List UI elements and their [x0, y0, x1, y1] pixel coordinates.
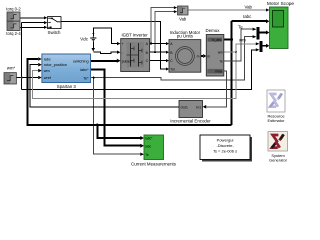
arrow current meas in3 — [140, 153, 144, 156]
arrow spartan in1 iabc — [38, 57, 42, 61]
svg-text:Switch: Switch — [48, 30, 61, 35]
svg-text:switching: switching — [73, 59, 89, 63]
mux2 — [260, 41, 263, 52]
svg-text:Te: Te — [238, 25, 243, 30]
svg-text:Iabc: Iabc — [243, 14, 252, 19]
svg-text:Te: Te — [145, 153, 149, 157]
arrow scope in1 — [266, 8, 269, 11]
svg-text:Spartan 3: Spartan 3 — [57, 84, 77, 89]
svg-text:Vab: Vab — [245, 4, 253, 9]
arrow scope in4 — [266, 44, 269, 48]
svg-text:+: + — [122, 42, 124, 46]
junction Te* — [93, 77, 95, 79]
wire Te* branch to current meas in3 — [94, 78, 141, 155]
arrow switch in1 — [44, 16, 47, 19]
wire IGBT A to motor A — [150, 43, 166, 45]
switch block — [48, 17, 62, 35]
step source wm* — [4, 66, 16, 84]
wire Vab block to scope in1 — [188, 9, 266, 11]
arrow motor A — [166, 42, 169, 45]
wire wref/control vertical branch — [22, 23, 257, 90]
arrow current meas in2 — [140, 144, 144, 148]
arrow IGBT in3 pulses — [117, 59, 121, 63]
svg-text:Generator: Generator — [269, 157, 288, 162]
wire iabc bus (thick): demux is_abc out, down, along bottom, up to spartan iabc — [27, 21, 266, 125]
svg-text:pulses: pulses — [122, 60, 132, 64]
arrow motor C — [166, 59, 169, 62]
svg-text:m: m — [197, 55, 200, 59]
wire tap A to Vab in1 — [151, 8, 174, 44]
junction wref branch — [21, 76, 23, 78]
wire Vdc minus to IGBT in2 with jog — [92, 41, 94, 48]
wire torq 2-4 to switch — [20, 26, 44, 28]
svg-text:pu Units: pu Units — [177, 33, 194, 38]
powergui block with shadow — [200, 135, 252, 162]
svg-text:-: - — [122, 51, 123, 55]
arrow IGBT in2 — [117, 51, 121, 54]
wire tap B to Vab in2 — [155, 12, 174, 53]
svg-text:IGBT Inverter: IGBT Inverter — [121, 32, 148, 37]
wire spartan switching to IGBT in3 (thick) — [91, 60, 118, 62]
arrow IGBT in1 — [117, 42, 121, 45]
svg-text:wm: wm — [218, 51, 223, 55]
svg-text:torq 2-4: torq 2-4 — [6, 31, 21, 36]
arrow Vab in1 — [174, 6, 177, 9]
arrow switch in2 — [44, 21, 47, 24]
arrow Vab in2 — [174, 10, 177, 13]
svg-text:m: m — [207, 55, 210, 59]
wire IGBT C to motor C — [150, 60, 166, 62]
svg-text:Te: Te — [219, 60, 223, 64]
arrow mux2 in1 — [256, 42, 260, 45]
arrow current meas in1 — [140, 136, 144, 140]
svg-text:torq 0-2: torq 0-2 — [6, 6, 21, 11]
svg-text:is_abc: is_abc — [212, 38, 222, 42]
svg-text:Motor Scope: Motor Scope — [267, 1, 295, 7]
svg-text:wm*: wm* — [7, 66, 16, 71]
svg-text:Current Measurements: Current Measurements — [131, 161, 177, 166]
arrow mux1 in1 — [253, 28, 257, 31]
wire wm loop: demux wm out, down, along, up to spartan in3 — [33, 52, 237, 99]
incremental encoder block — [170, 101, 211, 124]
motor scope block — [267, 1, 295, 49]
wire demux theta to encoder in — [206, 71, 227, 107]
svg-text:Vab: Vab — [179, 16, 187, 21]
step source torq 0-2 — [6, 6, 21, 21]
svg-text:theta: theta — [215, 70, 222, 74]
svg-text:Powergui: Powergui — [217, 138, 234, 143]
mux1 — [257, 27, 260, 40]
Vab measurement block — [178, 6, 189, 21]
svg-text:iabc: iabc — [44, 57, 51, 61]
wire rotor position loop: encoder out to spartan in2 — [30, 65, 179, 107]
svg-text:Incremental Encoder: Incremental Encoder — [170, 118, 211, 123]
arrow spartan in3 wm — [38, 69, 42, 73]
junction is_abc on bus — [230, 38, 233, 41]
svg-text:-Discrete,: -Discrete, — [216, 143, 233, 148]
wire bus tap to current meas in1 (thick) — [97, 125, 140, 138]
svg-text:rotor_position: rotor_position — [44, 63, 67, 67]
arrow mux1 in2 — [253, 35, 257, 38]
arrow scope in2 — [266, 19, 269, 23]
arrowheads — [38, 6, 269, 156]
wire Vdc plus to IGBT in1 — [93, 28, 117, 44]
arrow demux in m — [203, 54, 206, 58]
wire mux1 out to scope in3 — [260, 32, 267, 34]
svg-text:iabc: iabc — [145, 144, 151, 148]
wire Te* output loop to mux1 — [91, 37, 253, 80]
arrow spartan in2 rotor_position — [38, 63, 42, 67]
Vdc DC source — [80, 31, 96, 41]
wire wm* to wref input — [16, 77, 38, 79]
current measurements block — [131, 135, 177, 166]
svg-text:wm: wm — [44, 69, 50, 73]
arrow scope in3 — [266, 31, 269, 35]
arrow motor Tm — [166, 67, 169, 70]
wire motor m to demux (thick) — [201, 55, 203, 57]
svg-text:Estimator: Estimator — [268, 118, 286, 123]
resource estimator block — [267, 90, 285, 123]
IGBT inverter block — [121, 32, 150, 71]
svg-text:Ts = 2e-006 s: Ts = 2e-006 s — [213, 148, 237, 153]
induction motor block — [169, 30, 201, 72]
svg-text:In1: In1 — [196, 105, 201, 109]
svg-text:Tm: Tm — [170, 68, 175, 72]
arrow mux2 in2 — [256, 48, 260, 51]
wire Te to mux1 — [224, 29, 253, 61]
svg-text:iabc*: iabc* — [80, 68, 89, 72]
wire mux2 out to scope in4 — [263, 45, 267, 47]
svg-text:Out1: Out1 — [181, 105, 188, 109]
svg-text:Vdc: Vdc — [80, 37, 89, 42]
svg-text:Demux: Demux — [206, 28, 221, 33]
arrow switch in3 — [44, 26, 47, 29]
wire switch to motor Tm — [61, 22, 166, 69]
wire torq 0-2 to switch — [20, 17, 44, 19]
svg-text:Te*: Te* — [83, 76, 89, 80]
wire IGBT B to motor B — [150, 51, 166, 53]
Spartan 3 block — [42, 54, 91, 89]
arrow spartan in4 wref — [38, 76, 42, 80]
svg-text:wref: wref — [44, 76, 52, 80]
svg-text:wm: wm — [239, 37, 246, 42]
wire wm branch to mux2 — [236, 44, 256, 52]
junction current meas taps — [96, 124, 99, 127]
svg-text:iabc*: iabc* — [145, 137, 153, 141]
demux block (machines measurement demux) — [206, 28, 224, 76]
step source torq 2-4 — [6, 21, 21, 36]
system generator block — [268, 132, 288, 163]
arrow encoder in (points left) — [203, 105, 207, 109]
arrow motor B — [166, 51, 169, 54]
wire iabc* to current meas in2 (thick) — [91, 70, 141, 146]
